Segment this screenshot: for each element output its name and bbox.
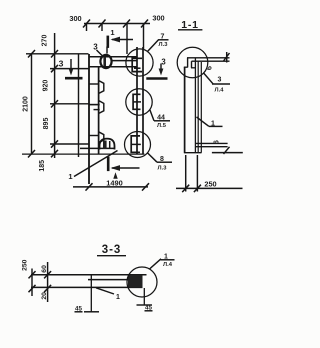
leader 1/L4	[150, 259, 175, 269]
3-3 left post	[90, 275, 92, 312]
dim 1490	[73, 183, 149, 190]
top flange outer	[187, 57, 230, 59]
circle 7 inner rect	[132, 58, 142, 71]
svg-text:920: 920	[43, 80, 50, 92]
detail circle 8	[125, 132, 151, 158]
svg-text:Л.4: Л.4	[215, 87, 225, 93]
svg-text:44: 44	[157, 114, 165, 121]
top flange inner	[192, 60, 230, 62]
svg-text:6: 6	[205, 66, 214, 70]
left plate line	[184, 67, 186, 153]
svg-text:7: 7	[161, 34, 165, 41]
chord bump 3 tick	[89, 135, 98, 137]
svg-text:2100: 2100	[23, 96, 30, 112]
svg-text:300: 300	[152, 14, 164, 23]
svg-text:6: 6	[211, 140, 220, 144]
leader 8/L3	[148, 153, 173, 162]
svg-text:1: 1	[164, 253, 168, 260]
top dimension line 300+300	[83, 20, 150, 55]
3-3 right post	[143, 288, 145, 305]
3-3 beam	[31, 275, 147, 288]
chord bump 1 ticks	[89, 83, 98, 85]
svg-text:300: 300	[69, 14, 81, 23]
web line 2	[197, 61, 199, 153]
svg-text:8: 8	[160, 156, 164, 163]
plan: bottom edge	[22, 153, 145, 155]
svg-text:20: 20	[41, 292, 48, 300]
plan: bar mid line	[112, 60, 137, 62]
plan: web right line B	[98, 67, 100, 154]
chord bump 1	[99, 81, 104, 94]
right chord lines	[136, 47, 138, 154]
leader 7/L3	[148, 40, 169, 52]
svg-text:Л.3: Л.3	[159, 42, 169, 48]
svg-text:3-3: 3-3	[102, 244, 122, 256]
circle 8 E-feature	[131, 136, 140, 152]
bolt axis stub	[106, 47, 108, 54]
lip step ticks	[184, 66, 188, 68]
svg-text:185: 185	[39, 160, 46, 172]
plan: flange edge line	[78, 54, 80, 157]
leader 1 in 1-1	[197, 117, 223, 126]
left dimension column 2100	[28, 50, 35, 158]
detail circle 44	[126, 89, 152, 115]
svg-text:60: 60	[41, 265, 48, 273]
lip verticals	[187, 58, 189, 68]
detail circle 7	[126, 49, 153, 76]
plan: bar bottom line	[89, 66, 138, 68]
svg-text:3: 3	[161, 58, 166, 67]
circle 44 E-feature	[133, 94, 140, 109]
detail circle 3/L4	[177, 47, 208, 78]
svg-text:895: 895	[43, 118, 50, 130]
svg-text:250: 250	[21, 259, 28, 271]
svg-text:250: 250	[204, 179, 216, 188]
3-3 beam end block	[128, 275, 143, 288]
svg-text:Л.3: Л.3	[158, 166, 168, 172]
leader 1 plan	[74, 151, 118, 177]
bottom edge	[184, 152, 202, 154]
dim 250 of 1-1	[176, 155, 243, 192]
dome dark bar	[103, 141, 107, 150]
bolt ellipse	[100, 55, 111, 68]
3-3 left dims	[29, 262, 52, 302]
web line 3	[200, 62, 202, 153]
svg-text:1490: 1490	[106, 178, 122, 187]
svg-text:3: 3	[59, 59, 64, 69]
svg-text:Л.5: Л.5	[157, 123, 167, 129]
svg-text:270: 270	[41, 35, 48, 47]
plan: web left line A	[88, 54, 90, 184]
chord bump 2 ticks	[89, 104, 100, 106]
3-3 detail circle 1/L4	[127, 267, 157, 297]
web line 1	[194, 58, 196, 153]
leader 44/L5	[150, 110, 170, 121]
section mark 3 right	[146, 64, 167, 79]
flange end tick top	[224, 52, 230, 63]
bottom dome	[100, 139, 115, 150]
leader 1 in 3-3	[96, 288, 114, 294]
svg-text:1: 1	[68, 172, 73, 181]
svg-text:Л.4: Л.4	[163, 262, 173, 268]
extension lines left	[26, 54, 89, 144]
plan: top edge	[89, 56, 138, 58]
plan: bottom bar top edge	[80, 147, 115, 149]
svg-text:1: 1	[110, 28, 115, 37]
bottom flange	[195, 142, 227, 144]
section 1-1 profile	[184, 58, 243, 153]
svg-text:1: 1	[116, 294, 120, 301]
svg-text:3: 3	[218, 76, 222, 83]
svg-text:1: 1	[211, 120, 215, 127]
section mark 1 top	[108, 36, 133, 48]
chord bump 2	[99, 101, 104, 114]
left dimension column segments	[51, 33, 58, 158]
bolt slot	[103, 57, 106, 66]
leader 3/L4	[204, 73, 230, 84]
flange end tick bottom	[224, 147, 230, 154]
bottom right thin line	[212, 152, 243, 154]
section mark 3 left	[65, 59, 83, 78]
chord bump 3	[99, 132, 104, 142]
circle 7 inner tick	[134, 67, 141, 69]
section mark 1 bottom	[108, 157, 139, 179]
